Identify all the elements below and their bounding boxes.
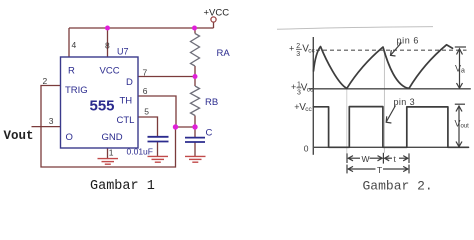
svg-text:O: O — [66, 132, 73, 143]
svg-text:+: + — [289, 44, 294, 54]
svg-text:RB: RB — [205, 97, 218, 108]
svg-text:CTL: CTL — [117, 115, 135, 126]
svg-text:7: 7 — [143, 68, 148, 78]
svg-text:U7: U7 — [117, 47, 129, 57]
svg-text:W: W — [362, 154, 370, 164]
svg-text:cc: cc — [305, 106, 312, 113]
svg-text:VCC: VCC — [100, 66, 120, 77]
svg-text:+: + — [291, 82, 296, 92]
svg-text:0: 0 — [304, 144, 309, 154]
svg-text:6: 6 — [143, 86, 148, 96]
svg-text:5: 5 — [144, 107, 149, 117]
svg-text:Vout: Vout — [4, 129, 34, 143]
svg-text:2: 2 — [43, 76, 48, 86]
svg-text:pin 6: pin 6 — [397, 36, 420, 46]
svg-text:cc: cc — [308, 48, 315, 55]
svg-text:cc: cc — [307, 87, 314, 94]
svg-text:TRIG: TRIG — [65, 85, 88, 96]
svg-text:Gambar 2.: Gambar 2. — [363, 178, 433, 193]
svg-text:Gambar 1: Gambar 1 — [90, 179, 155, 194]
svg-text:a: a — [461, 68, 465, 75]
svg-text:GND: GND — [102, 132, 123, 143]
svg-text:out: out — [461, 124, 470, 130]
svg-text:8: 8 — [105, 41, 110, 51]
svg-text:555: 555 — [90, 98, 115, 115]
svg-text:C: C — [206, 128, 213, 139]
svg-text:D: D — [126, 77, 133, 88]
svg-text:R: R — [68, 66, 75, 77]
svg-text:3: 3 — [49, 116, 54, 126]
svg-text:3: 3 — [296, 51, 300, 58]
svg-text:1: 1 — [109, 148, 114, 158]
svg-text:T: T — [377, 165, 382, 175]
svg-text:TH: TH — [120, 96, 133, 107]
svg-text:RA: RA — [217, 48, 231, 59]
svg-text:t: t — [394, 154, 397, 164]
svg-text:4: 4 — [72, 40, 77, 50]
svg-text:+VCC: +VCC — [204, 8, 230, 19]
svg-text:pin 3: pin 3 — [394, 97, 416, 107]
svg-text:0.01uF: 0.01uF — [127, 147, 153, 157]
